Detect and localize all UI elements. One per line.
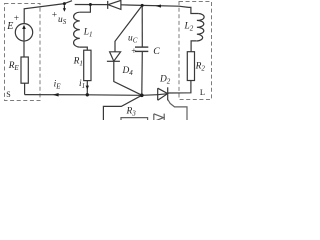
svg-text:L2: L2 [184, 22, 194, 33]
svg-text:uS: uS [58, 15, 67, 26]
svg-text:R1: R1 [73, 56, 83, 67]
svg-text:C: C [153, 46, 160, 57]
svg-text:uC: uC [128, 34, 138, 45]
svg-text:L1: L1 [83, 28, 93, 39]
svg-text:D4: D4 [122, 66, 134, 77]
svg-text:E: E [6, 21, 13, 32]
svg-text:+: + [52, 10, 57, 20]
svg-text:+: + [131, 47, 136, 57]
svg-text:D2: D2 [159, 75, 171, 86]
svg-text:L: L [200, 87, 205, 97]
svg-text:R3: R3 [126, 107, 137, 118]
svg-text:S: S [6, 90, 10, 99]
svg-text:iE: iE [54, 79, 62, 90]
svg-text:RE: RE [8, 61, 20, 72]
svg-text:R2: R2 [195, 62, 206, 73]
svg-text:+: + [14, 14, 19, 24]
